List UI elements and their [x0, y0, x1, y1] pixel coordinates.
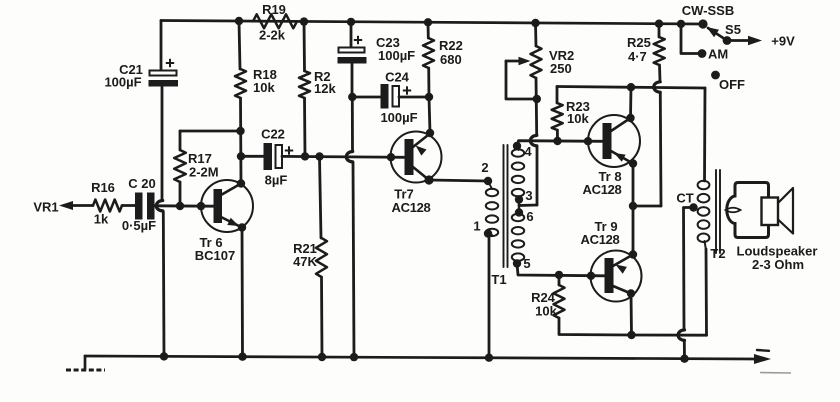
wire C23 top lead [350, 22, 353, 48]
resistor R22 [427, 22, 430, 38]
node C22 left junction [237, 152, 245, 160]
resistor R19 [253, 14, 297, 28]
svg-text:3: 3 [525, 188, 532, 203]
node VR2 top [531, 19, 539, 27]
transistor Tr7 body [391, 132, 442, 183]
svg-text:1k: 1k [94, 212, 109, 227]
node R2 top [300, 17, 308, 25]
Tr8 emitter (arrow to base) [611, 151, 633, 164]
node Tr9 collector contact [627, 289, 635, 297]
node VR1 input arrow [59, 201, 73, 210]
node R22 top [424, 18, 432, 26]
node T1 terminal 2 [484, 177, 492, 185]
svg-text:S5: S5 [725, 22, 741, 37]
wire T1 pins 3-6 tie [518, 200, 520, 213]
node R25 top [655, 20, 663, 28]
transistor Tr8 body [588, 115, 640, 167]
label C23 plus [354, 39, 362, 41]
wire C21 top lead [160, 21, 163, 71]
wire R17 top to R18 line [180, 130, 240, 133]
wire T2 bottom riser [705, 249, 708, 335]
node OFF contact [711, 71, 720, 80]
svg-text:C22: C22 [261, 127, 285, 142]
wire R23 top / Tr8 collector rail [557, 87, 705, 89]
svg-text:AC128: AC128 [583, 182, 622, 197]
node R21 top junction [315, 152, 323, 160]
resistor R24 [558, 275, 561, 285]
wire T1 pin1 to ground [488, 234, 491, 358]
svg-text:2-2M: 2-2M [189, 165, 219, 180]
svg-text:CT: CT [676, 191, 693, 206]
svg-text:R16: R16 [91, 180, 115, 195]
wire R25 to emitters (hop over collector wire) [658, 65, 661, 81]
transformer T1 core [503, 145, 505, 267]
svg-text:VR1: VR1 [33, 200, 58, 215]
wire collector to T2 bottom [632, 334, 707, 337]
svg-text:R19: R19 [262, 2, 286, 17]
node R24 top junction [555, 271, 563, 279]
node Tr7 emitter junction [426, 129, 434, 137]
svg-text:5: 5 [523, 256, 530, 271]
transistor Tr9 body [591, 251, 642, 302]
crossover hop C23 line over C22 wire [346, 152, 352, 162]
node VR2 wiper tie [533, 95, 541, 103]
node Tr9 base contact [587, 272, 595, 280]
resistor R17 [179, 131, 182, 150]
wire ground rail [85, 356, 756, 359]
node C23 top [347, 18, 355, 26]
wire R22 node to Tr7 emitter [429, 97, 430, 133]
svg-text:10k: 10k [253, 80, 275, 95]
node Tr9 emitter contact [629, 250, 637, 258]
wire top supply rail [161, 21, 703, 25]
wire R16 to C20 [122, 204, 136, 207]
VR2 wiper arrow [506, 61, 537, 99]
wire T2 top lead [703, 88, 706, 181]
wire C24 left lead [352, 96, 381, 99]
transformer T1 secondary upper winding [512, 149, 524, 156]
svg-text:OFF: OFF [719, 77, 745, 92]
node emitter junction [629, 202, 637, 210]
svg-text:C 20: C 20 [128, 176, 155, 191]
node Tr8 emitter contact [629, 159, 637, 167]
wire Tr8 collector up [629, 87, 632, 118]
svg-text:AM: AM [708, 47, 728, 62]
transformer T1 primary winding [489, 182, 493, 189]
crossover hop R25 line over collector wire [654, 82, 660, 92]
transistor Tr6 body [201, 180, 253, 232]
wire Tr9 collector down [630, 294, 633, 336]
label C24 plus [403, 90, 411, 92]
node T1 terminal 5 [513, 259, 521, 267]
svg-text:BC107: BC107 [195, 248, 235, 263]
crossover hop C21 line over base wire [156, 201, 162, 211]
svg-text:10k: 10k [535, 304, 557, 319]
wire to +9V [727, 39, 749, 42]
svg-text:4·7: 4·7 [628, 49, 647, 64]
wire T1 pin4 to Tr8 base [517, 141, 603, 146]
wire Tr7 collector to T1 [429, 180, 488, 181]
wire T1 pin5 to Tr9 base [517, 264, 605, 276]
svg-text:2-2k: 2-2k [259, 28, 286, 43]
Tr6 collector [221, 184, 241, 196]
svg-text:10k: 10k [567, 111, 589, 126]
svg-text:100µF: 100µF [378, 48, 415, 63]
resistor R23 [556, 87, 559, 104]
loudspeaker cone [778, 188, 793, 234]
svg-text:100µF: 100µF [380, 110, 417, 125]
resistor R2 [303, 22, 306, 71]
transformer T2 primary winding [698, 181, 710, 190]
ground [84, 356, 87, 369]
node Tr6 emitter contact [238, 223, 246, 231]
node T1 terminal 4 [513, 142, 521, 150]
svg-text:2-3 Ohm: 2-3 Ohm [752, 257, 804, 272]
label C22 plus [285, 150, 293, 152]
wire Tr8 emitter down [632, 164, 635, 255]
node Tr7 base contact [387, 153, 395, 161]
loudspeaker coil oval [726, 208, 741, 213]
svg-text:680: 680 [440, 52, 462, 67]
node Tr6 collector contact [237, 179, 245, 187]
svg-text:+9V: +9V [771, 34, 795, 49]
node switch pivot [723, 36, 732, 45]
wire C24 right lead [399, 96, 429, 99]
wire C22 right to Tr7 base [282, 155, 405, 159]
Tr8 collector [611, 118, 631, 131]
crossover hop CT line over T2-bottom wire [678, 330, 684, 340]
node AM contact [698, 49, 707, 58]
node Tr7 collector contact [424, 175, 433, 184]
capacitor C22 [264, 143, 273, 170]
node R2 bottom junction [301, 152, 309, 160]
node ground C23 line [350, 353, 358, 361]
svg-text:8µF: 8µF [265, 173, 288, 188]
wire C22 left lead [241, 155, 264, 158]
wire C20 to Tr6 base [155, 204, 215, 207]
resistor R25 [658, 24, 661, 37]
svg-text:R22: R22 [439, 38, 463, 53]
switch S5 lever [708, 28, 727, 41]
Tr7 emitter (arrow to base) [413, 134, 430, 148]
transformer T2 core [715, 170, 717, 253]
node Tr8 collector contact [626, 114, 634, 122]
node T1 terminal 6 [515, 208, 523, 216]
wire AM branch [681, 24, 702, 54]
node AM riser junction [677, 20, 685, 28]
node R18 top [235, 17, 243, 25]
node CT ground junction [680, 355, 688, 363]
resistor R21 [320, 157, 322, 239]
Tr6 emitter [221, 217, 242, 228]
svg-text:0·5µF: 0·5µF [122, 218, 156, 233]
node ground T1 pin1 [485, 354, 493, 362]
crossover hop VR2 line over pin4 wire [530, 135, 536, 145]
node Tr8 base contact [584, 137, 592, 145]
svg-text:47K: 47K [293, 254, 317, 269]
node C23/C24 junction [348, 93, 356, 101]
capacitor C24 [381, 84, 389, 109]
wire centre tap to ground [684, 208, 694, 330]
node T2 centre tap [689, 203, 697, 211]
loudspeaker body [727, 183, 769, 238]
svg-text:R25: R25 [627, 35, 651, 50]
Tr9 emitter (arrow to base) [613, 255, 633, 267]
ground rail arrow [754, 354, 771, 364]
wire C21 bottom lead to ground (hop over base wire) [161, 86, 164, 200]
wire Tr6 emitter to ground [241, 228, 244, 357]
resistor R18 [239, 21, 240, 69]
node ground C21 [160, 352, 168, 360]
svg-text:1: 1 [473, 219, 480, 234]
loudspeaker driver [762, 198, 779, 226]
svg-text:AC128: AC128 [392, 200, 431, 215]
svg-text:4: 4 [524, 144, 532, 159]
svg-text:AC128: AC128 [581, 232, 620, 247]
label C21 plus [166, 62, 174, 64]
svg-text:T2: T2 [710, 246, 725, 261]
svg-text:12k: 12k [314, 81, 336, 96]
node Tr8 collector top junction [627, 83, 635, 91]
svg-text:100µF: 100µF [104, 75, 141, 90]
node R17 top junction [236, 127, 244, 135]
node base junction [197, 202, 205, 210]
svg-text:2: 2 [481, 160, 488, 175]
node Tr9 collector / T2 junction [627, 331, 635, 339]
svg-text:250: 250 [550, 61, 572, 76]
svg-text:CW-SSB: CW-SSB [682, 3, 734, 18]
node T1 terminal 3 [515, 195, 523, 203]
transformer T1 secondary lower winding [512, 214, 524, 221]
node switch contact CW-SSB [698, 19, 707, 28]
resistor R16 [93, 200, 122, 212]
svg-text:T1: T1 [491, 272, 506, 287]
svg-text:6: 6 [526, 209, 533, 224]
capacitor C21 [150, 71, 177, 76]
node R23 bottom junction [553, 137, 561, 145]
capacitor C23 [339, 48, 365, 53]
Tr9 collector [613, 286, 631, 294]
Tr7 collector [413, 167, 429, 180]
potentiometer VR2 [534, 23, 537, 46]
node ground R21 [318, 353, 326, 361]
node C24/R22 junction [425, 93, 433, 101]
capacitor C20 [135, 193, 143, 220]
node ground Tr6 emitter [238, 353, 246, 361]
node R17 bottom junction [176, 202, 184, 210]
svg-text:C24: C24 [385, 70, 410, 85]
node T1 terminal 1 [484, 229, 492, 237]
wire C23 bottom to node (hop over C22 wire) [351, 64, 354, 98]
